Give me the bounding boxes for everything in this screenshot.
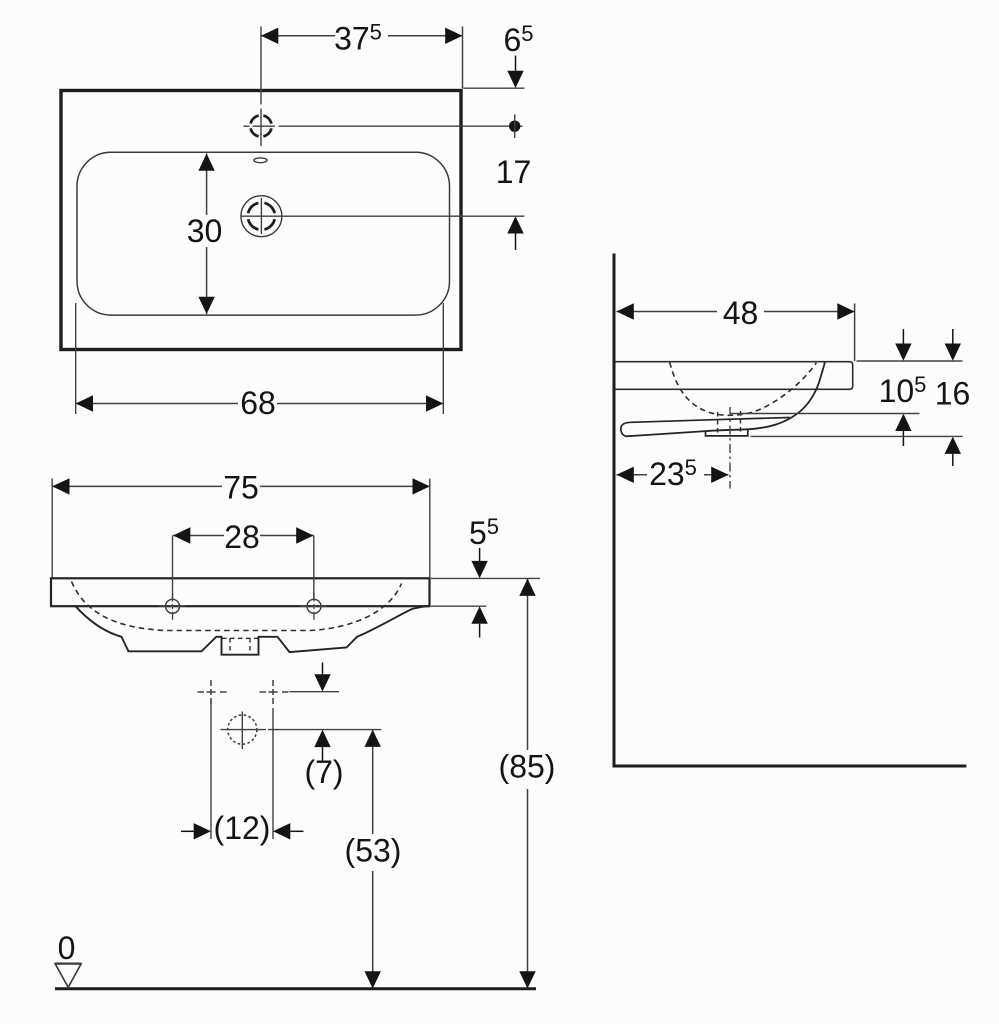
- dimension 6.5 arrow (down): [515, 56, 517, 73]
- dimension 48 line: [617, 304, 855, 362]
- dimension 37.5 line: [261, 27, 463, 89]
- datum underline: [55, 962, 82, 964]
- dimension 48 arrows: [617, 303, 634, 319]
- drain boss hidden lines (side): [718, 411, 741, 434]
- supply level reference line: [290, 691, 340, 693]
- dimension 68 line: [76, 403, 444, 405]
- dimension 28 line: [173, 535, 314, 537]
- floor line (side view): [613, 765, 967, 768]
- dimension 28 arrows: [173, 527, 190, 543]
- washbasin slab (front): [51, 578, 430, 606]
- svg-text:16: 16: [935, 376, 971, 412]
- drain boss (side): [706, 429, 748, 436]
- bowl interior hidden line (side, dashed): [670, 362, 817, 415]
- dimension 7 arrow (up): [314, 730, 330, 747]
- dimension 10.5 arrow (down): [902, 329, 904, 344]
- floor line (front view): [55, 987, 536, 990]
- tap hole centerline vertical: [260, 27, 262, 147]
- drain centerline (side, dash-dot): [729, 407, 731, 489]
- dimension 75 arrows: [52, 478, 69, 494]
- tap hole: [251, 116, 272, 137]
- datum triangle: [55, 964, 81, 987]
- fixing hole right: [301, 594, 328, 621]
- dimension 68 extension lines: [76, 303, 444, 414]
- bowl interior hidden line (front, dashed): [72, 582, 402, 631]
- siphon crosshair: [221, 729, 267, 731]
- siphon outlet dotted circle: [228, 715, 257, 744]
- svg-text:17: 17: [496, 154, 532, 190]
- dimension 16 arrow (up): [945, 437, 961, 454]
- dimension 5.5 arrow (down): [479, 548, 481, 562]
- dimension 10.5 arrow (up): [895, 414, 911, 431]
- drain boss hidden lines (front): [222, 638, 258, 654]
- dimension 12 arrows (outside): [181, 830, 194, 832]
- basin bottom reference line: [751, 435, 963, 437]
- basin inner bowl (plan): [77, 152, 450, 315]
- dimension 7 arrow (down): [322, 663, 324, 675]
- dimension 53 line: [372, 730, 374, 989]
- svg-text:68: 68: [240, 385, 276, 421]
- svg-text:75: 75: [223, 470, 259, 506]
- overflow slot: [254, 158, 267, 163]
- drain centerline vertical: [260, 198, 262, 234]
- svg-text:(85): (85): [499, 749, 556, 785]
- dimension 37.5 arrows: [261, 28, 278, 44]
- svg-text:30: 30: [187, 213, 223, 249]
- drain centerline horizontal (extends right): [241, 215, 525, 217]
- basin interior depth reference line: [730, 413, 920, 415]
- dimension 5.5 arrow (up): [471, 606, 487, 623]
- mounting lip top edge (side): [631, 418, 790, 423]
- dimension 23.5 arrows: [617, 467, 634, 483]
- dimension 30 arrows: [198, 154, 214, 171]
- dimension 68 arrows: [76, 395, 93, 411]
- dimension 75 line: [52, 485, 430, 487]
- svg-text:48: 48: [723, 295, 759, 331]
- dimension 53 arrows: [365, 730, 381, 747]
- svg-text:(12): (12): [214, 810, 271, 846]
- svg-text:0: 0: [58, 930, 76, 966]
- siphon level reference line: [268, 729, 381, 731]
- slab bottom extension line: [431, 605, 486, 607]
- washbasin outer rim (plan): [61, 91, 461, 350]
- slab (side): [614, 362, 853, 390]
- rim top edge extension line: [464, 87, 525, 89]
- dimension 28 extension lines: [173, 536, 314, 600]
- dimension 30 line: [206, 154, 208, 315]
- dimension 12 extension lines: [211, 701, 273, 839]
- svg-text:28: 28: [224, 519, 260, 555]
- fixing hole left: [159, 594, 186, 621]
- dimension 85 line: [527, 579, 529, 989]
- wall line: [613, 254, 616, 768]
- top surface reference line: [857, 360, 963, 362]
- svg-text:(53): (53): [345, 833, 402, 869]
- dimension 17 reference dot: [509, 121, 520, 132]
- slab top extension line: [431, 577, 540, 579]
- dimension 85 arrows: [519, 579, 535, 596]
- supply connection cross right: [260, 680, 289, 704]
- dimension 75 extension lines: [52, 479, 430, 578]
- drain inner circle: [248, 203, 275, 230]
- dimension 16 arrow (down): [952, 329, 954, 344]
- tap hole centerline horizontal (extends to dot at right): [244, 125, 523, 127]
- bowl underside silhouette (front): [76, 606, 429, 655]
- dimension 23.5 line: [617, 474, 729, 476]
- mounting lip left end cap: [621, 422, 631, 436]
- supply connection cross left: [198, 680, 227, 704]
- bowl outer silhouette (side): lip bottom sweeping up to rim: [626, 362, 825, 436]
- drain outer circle: [241, 196, 282, 237]
- svg-text:(7): (7): [304, 754, 343, 790]
- dimension 17 arrow (up): [507, 216, 523, 233]
